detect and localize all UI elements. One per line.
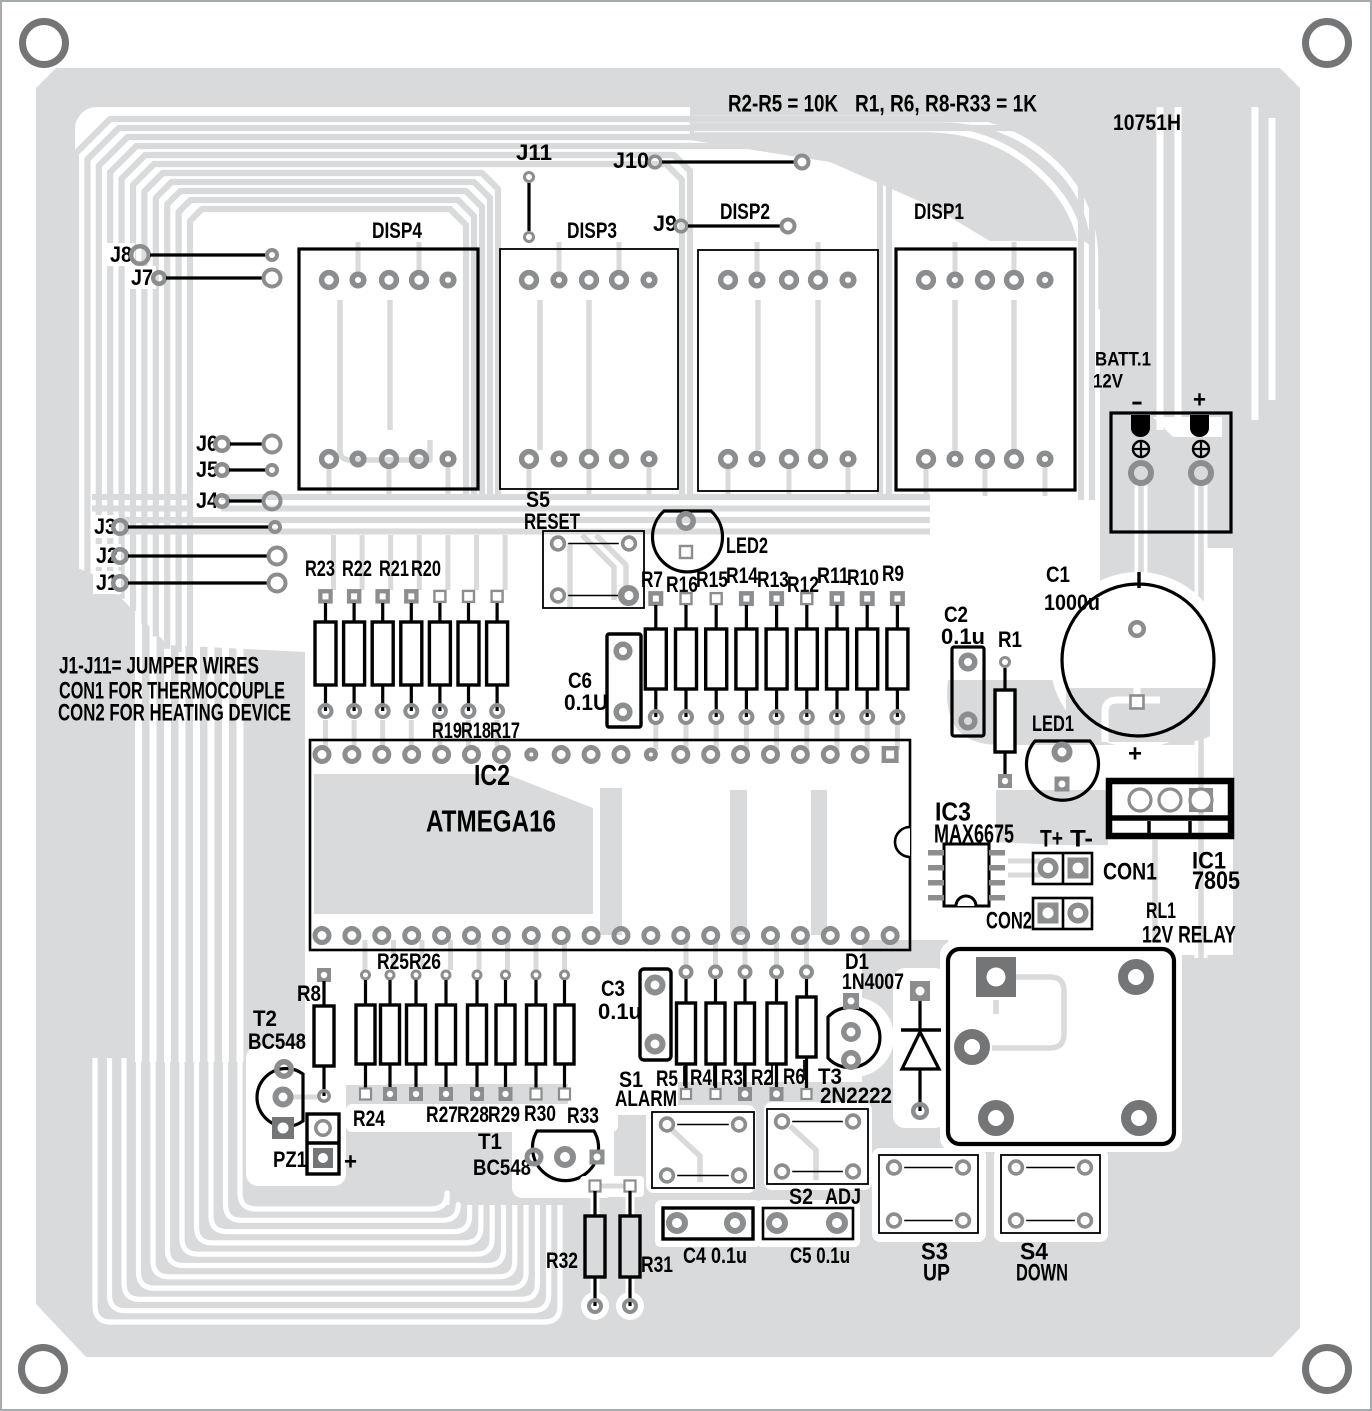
switch S2 ADJ — [767, 1109, 868, 1209]
svg-text:J7: J7 — [131, 265, 153, 290]
svg-text:R7: R7 — [641, 567, 663, 592]
svg-text:R29: R29 — [488, 1102, 520, 1127]
svg-text:R32: R32 — [546, 1248, 578, 1273]
mounting hole (1327,1369) — [1306, 1348, 1349, 1391]
resistor R32 — [546, 1176, 644, 1320]
svg-text:R13: R13 — [757, 567, 789, 592]
display DISP4 — [299, 218, 478, 489]
svg-text:R4: R4 — [690, 1065, 713, 1090]
svg-text:DISP3: DISP3 — [567, 218, 617, 243]
svg-text:12V: 12V — [1093, 372, 1123, 393]
connector CON1 thermocouple — [1033, 825, 1157, 885]
jumper wire J5 — [193, 457, 277, 482]
mounting hole (1327,43) — [1306, 22, 1349, 65]
svg-text:R21: R21 — [379, 556, 409, 581]
jumper wire J2 — [93, 543, 286, 568]
svg-text:R2-R5 = 10K: R2-R5 = 10K — [728, 90, 839, 117]
wire bus left edge — [139, 596, 241, 1062]
resistor R31 — [620, 1181, 673, 1313]
svg-text:R1, R6, R8-R33 = 1K: R1, R6, R8-R33 = 1K — [855, 90, 1038, 117]
svg-text:R33: R33 — [567, 1103, 599, 1128]
diode D1 1N4007 — [842, 949, 941, 1118]
jumper wire J11 — [516, 140, 552, 242]
copper pour regions — [75, 107, 1233, 1320]
svg-text:R8: R8 — [297, 981, 321, 1006]
svg-text:R10: R10 — [847, 565, 879, 590]
capacitor C5 — [763, 1208, 853, 1268]
svg-text:0.1U: 0.1U — [564, 690, 608, 715]
display DISP3 — [500, 218, 678, 489]
svg-text:R24: R24 — [353, 1106, 386, 1131]
board inner substrate — [75, 107, 1233, 1212]
capacitor C2 — [941, 602, 985, 736]
svg-text:S2: S2 — [789, 1184, 813, 1209]
svg-text:LED1: LED1 — [1032, 711, 1074, 736]
svg-text:C3: C3 — [601, 976, 625, 1001]
annotation jumpers — [58, 652, 291, 726]
svg-text:R20: R20 — [411, 556, 441, 581]
relay RL1 — [948, 898, 1236, 1144]
switch S3 UP — [879, 1155, 978, 1286]
wire traces right pour — [692, 107, 1272, 958]
mounting hole (43,1369) — [22, 1348, 65, 1391]
capacitor C1 — [1044, 562, 1214, 768]
wire bus below displays — [92, 497, 930, 532]
svg-text:R9: R9 — [882, 561, 904, 586]
svg-text:T-: T- — [1070, 825, 1093, 852]
switch S4 DOWN — [1001, 1155, 1100, 1286]
svg-text:J11: J11 — [516, 140, 552, 165]
jumper wire J7 — [128, 265, 281, 290]
svg-text:R1: R1 — [998, 627, 1022, 652]
svg-text:DOWN: DOWN — [1016, 1259, 1068, 1286]
svg-text:RESET: RESET — [524, 509, 580, 534]
svg-text:0.1u: 0.1u — [598, 999, 642, 1024]
svg-text:0.1u: 0.1u — [941, 624, 985, 649]
svg-text:+: + — [1128, 740, 1142, 767]
svg-text:R27: R27 — [426, 1102, 458, 1127]
mounting hole (44,43) — [23, 22, 66, 65]
svg-text:ATMEGA16: ATMEGA16 — [426, 803, 556, 838]
svg-text:1000u: 1000u — [1044, 590, 1100, 615]
svg-text:R25: R25 — [377, 949, 409, 974]
display DISP1 — [896, 199, 1075, 490]
svg-text:R22: R22 — [342, 556, 372, 581]
svg-text:J10: J10 — [613, 148, 649, 173]
svg-text:+: + — [344, 1148, 357, 1175]
svg-text:DISP2: DISP2 — [720, 199, 770, 224]
svg-text:R23: R23 — [305, 556, 335, 581]
jumper wire J10 — [613, 148, 809, 173]
svg-text:LED2: LED2 — [726, 533, 768, 558]
svg-text:R11: R11 — [817, 563, 849, 588]
resistors R5 R4 R3 R2 R6 — [656, 967, 816, 1102]
svg-text:T1: T1 — [478, 1129, 502, 1154]
svg-text:CON1: CON1 — [1103, 858, 1157, 885]
svg-text:C4 0.1u: C4 0.1u — [683, 1243, 747, 1268]
capacitor C6 — [564, 634, 641, 727]
wire bus bottom-left rings — [95, 1058, 560, 1322]
svg-text:-: - — [1131, 388, 1143, 415]
wire bus top-left — [76, 119, 1092, 652]
switch S5 RESET — [524, 487, 644, 608]
svg-text:ALARM: ALARM — [615, 1086, 677, 1111]
svg-text:R28: R28 — [457, 1102, 489, 1127]
wire traces center — [293, 180, 1155, 1182]
svg-text:R2: R2 — [751, 1065, 773, 1090]
svg-text:10751H: 10751H — [1113, 110, 1181, 135]
svg-text:BATT.1: BATT.1 — [1095, 350, 1151, 371]
svg-text:R6: R6 — [783, 1064, 805, 1089]
transistor T1 BC548 — [473, 1129, 605, 1181]
svg-text:BC548: BC548 — [248, 1029, 306, 1054]
svg-text:RL1: RL1 — [1146, 898, 1176, 923]
piezo PZ1 — [273, 1114, 357, 1175]
svg-text:R3: R3 — [721, 1065, 743, 1090]
svg-text:1N4007: 1N4007 — [842, 969, 904, 994]
jumper wire J4 — [193, 488, 281, 513]
capacitor C3 — [598, 969, 671, 1060]
resistors R24-R33 bank — [353, 949, 599, 1131]
svg-text:T2: T2 — [253, 1006, 277, 1031]
IC IC3 MAX6675 — [928, 797, 1014, 906]
svg-text:IC2: IC2 — [474, 760, 510, 792]
svg-text:DISP1: DISP1 — [914, 199, 964, 224]
jumper wire J3 — [91, 514, 280, 539]
keepout whites — [246, 241, 1226, 1247]
resistor R1 — [995, 627, 1022, 788]
LED LED1 — [1027, 711, 1099, 800]
resistors R23-R17 — [305, 556, 520, 743]
svg-text:R30: R30 — [524, 1101, 556, 1126]
resistors R7,R16-R9 — [641, 561, 908, 723]
svg-text:UP: UP — [923, 1259, 950, 1286]
jumper wire J1 — [93, 570, 286, 595]
svg-text:CON2 FOR HEATING DEVICE: CON2 FOR HEATING DEVICE — [58, 699, 291, 726]
annotation resistor values — [728, 90, 1038, 117]
svg-text:CON2: CON2 — [986, 907, 1032, 934]
LED LED2 — [653, 511, 769, 572]
svg-text:7805: 7805 — [1192, 867, 1240, 895]
svg-text:J8: J8 — [110, 242, 132, 267]
IC IC1 7805 regulator — [1109, 781, 1240, 895]
transistor T2 BC548 — [248, 1006, 306, 1139]
IC IC2 ATMEGA16 — [310, 740, 910, 950]
svg-text:R31: R31 — [641, 1252, 673, 1277]
resistor R8 — [297, 968, 334, 1101]
svg-text:+: + — [1193, 386, 1206, 413]
jumper wire J6 — [193, 431, 281, 456]
capacitor C4 — [663, 1208, 753, 1268]
battery BATT.1 12V — [1093, 350, 1231, 532]
jumper wire J9 — [653, 211, 795, 236]
display DISP2 — [698, 199, 878, 491]
svg-text:C5 0.1u: C5 0.1u — [790, 1243, 850, 1268]
board number 10751H — [1113, 110, 1181, 135]
svg-text:J1-J11= JUMPER WIRES: J1-J11= JUMPER WIRES — [59, 652, 259, 679]
transistor T3 2N2222 — [818, 993, 892, 1108]
svg-text:J9: J9 — [653, 211, 677, 236]
svg-text:PZ1: PZ1 — [273, 1147, 307, 1172]
switch S1 ALARM — [615, 1067, 754, 1188]
svg-text:T+: T+ — [1040, 825, 1063, 852]
svg-text:R14: R14 — [726, 563, 759, 588]
svg-text:DISP4: DISP4 — [372, 218, 423, 243]
svg-text:BC548: BC548 — [473, 1155, 531, 1180]
svg-text:12V RELAY: 12V RELAY — [1142, 921, 1236, 948]
svg-text:C1: C1 — [1046, 562, 1070, 587]
connector CON2 heating device — [986, 898, 1092, 934]
svg-text:R15: R15 — [696, 567, 728, 592]
jumper wire J8 — [107, 242, 277, 267]
svg-text:2N2222: 2N2222 — [820, 1083, 892, 1108]
svg-text:ADJ: ADJ — [825, 1184, 861, 1209]
